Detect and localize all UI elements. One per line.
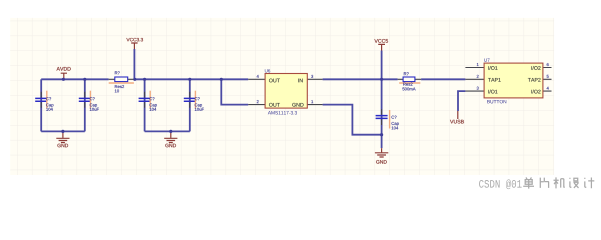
junction at GND1 [61, 130, 64, 133]
capacitor C? 10uF (C4) [184, 91, 204, 111]
junction at U6 pin2 branch [220, 78, 223, 81]
wire bottom middle cap bus [145, 130, 190, 132]
junction at C4 top [188, 78, 191, 81]
capacitor C? 104 (C1) [35, 91, 53, 111]
watermark [479, 179, 522, 189]
watermark CJK she [570, 178, 579, 188]
power port VUSB [450, 111, 464, 123]
junction at C3 top [143, 78, 146, 81]
watermark CJK ji [554, 177, 565, 188]
wire VCC3.3 rail to U6 pin4 [134, 78, 248, 80]
voltage regulator U6 AMS1117-3.3 [248, 69, 322, 114]
ground GND2 [164, 131, 177, 147]
wire VCC5 stem drop [381, 51, 383, 80]
IC U7 BUTTON [465, 59, 551, 104]
wire VCC3.3 stem drop [133, 49, 135, 79]
wire U6 pin3 IN to fuse [323, 78, 398, 80]
ground GND3 [375, 148, 388, 163]
wire top-left rail AVDD [41, 78, 108, 80]
junction at AVDD stem [62, 78, 65, 81]
wire C4 vertical [189, 79, 191, 131]
wire corner down to U6 pin2 [221, 79, 248, 104]
junction at VCC5 stem [380, 78, 383, 81]
wire U6 pin1 GND route [323, 105, 382, 135]
wire C3 vertical [144, 79, 146, 131]
watermark CJK ji2 [585, 178, 595, 189]
wire C2 vertical [84, 79, 86, 131]
ground GND1 [56, 131, 69, 147]
wire fuse to U7 pin2 [421, 78, 465, 80]
capacitor C? 10uF (C2) [79, 91, 99, 111]
junction at VCC3.3 stem [133, 78, 136, 81]
wire C5 vertical [381, 79, 383, 148]
junction at GND2 [169, 130, 172, 133]
junction at C2 top [83, 78, 86, 81]
wire C1 vertical [40, 79, 42, 131]
power port VCC5 [374, 39, 388, 50]
watermark CJK pian [540, 178, 549, 188]
wire U7 pin3 to VUSB [458, 91, 465, 111]
resistor R? Res2 10 [109, 71, 135, 92]
junction at C5 bottom [380, 133, 383, 136]
capacitor C? 104 (C5) [376, 109, 399, 129]
fuse R? Res2 500mA [398, 72, 422, 90]
power port VCC3.3 [126, 38, 143, 49]
watermark CJK dan [523, 177, 534, 188]
power port AVDD [57, 67, 71, 79]
capacitor C? 104 (C3) [139, 91, 157, 111]
wire bottom left cap bus [41, 130, 85, 132]
